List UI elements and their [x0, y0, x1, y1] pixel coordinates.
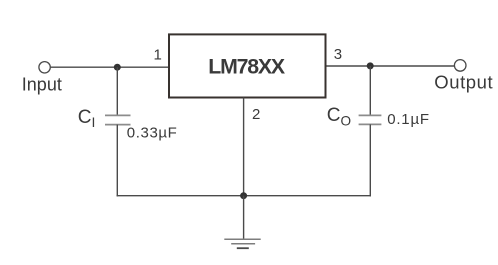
wire junction to CO: [369, 66, 371, 115]
svg-text:0.1µF: 0.1µF: [387, 111, 430, 128]
wire pin 2 to bottom rail: [243, 98, 245, 196]
regulator U1 LM78XX: [169, 34, 326, 97]
input terminal: [39, 62, 50, 73]
wire input to pin 1: [51, 66, 169, 68]
svg-text:2: 2: [252, 106, 260, 123]
svg-text:CO: CO: [327, 105, 351, 128]
svg-text:Output: Output: [434, 72, 493, 93]
node output junction: [367, 62, 374, 69]
svg-text:LM78XX: LM78XX: [208, 55, 286, 79]
wire junction to CI: [116, 67, 118, 115]
node ground junction: [240, 192, 247, 199]
capacitor CI: [105, 115, 131, 124]
ground: [224, 239, 260, 248]
wire CO to bottom rail: [369, 124, 371, 196]
wire pin 3 to output: [327, 65, 455, 67]
wire bottom rail: [117, 195, 371, 197]
node input junction: [114, 64, 121, 71]
svg-text:1: 1: [153, 46, 161, 63]
wire to ground: [243, 196, 245, 240]
svg-text:3: 3: [334, 46, 342, 63]
output terminal: [454, 60, 466, 72]
svg-text:CI: CI: [78, 107, 96, 130]
svg-text:Input: Input: [22, 74, 62, 94]
capacitor CO: [359, 115, 382, 124]
svg-text:0.33µF: 0.33µF: [127, 125, 178, 142]
wire CI to bottom rail: [116, 125, 118, 197]
